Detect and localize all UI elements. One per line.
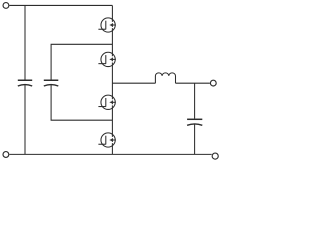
- wire output-cap branch upper: [194, 83, 196, 118]
- mosfet M3: [98, 95, 115, 109]
- wire switch node to inductor: [112, 82, 155, 84]
- inductor L1: [155, 73, 175, 83]
- mosfet M1: [98, 18, 115, 32]
- wire top rail: [9, 4, 112, 6]
- wire flying-cap bottom (cap to node B): [51, 85, 112, 120]
- wire input-cap branch upper: [24, 5, 26, 79]
- wire output-cap branch lower: [194, 124, 196, 154]
- terminal Vin- (bottom-left): [3, 152, 9, 158]
- terminal Vin+ (top-left): [3, 3, 9, 9]
- wire flying-cap top (node A to cap): [51, 44, 112, 79]
- capacitor C_in: [18, 80, 32, 86]
- wire drain-source stack (x=112.4, with channel gaps): [111, 5, 113, 154]
- mosfet M4: [98, 133, 115, 147]
- wire inductor to output terminal: [176, 82, 210, 84]
- mosfet M2: [98, 52, 115, 66]
- capacitor C_out: [187, 119, 202, 125]
- terminal Vout- (bottom-right): [212, 153, 218, 159]
- wire input-cap branch lower: [24, 85, 26, 154]
- capacitor C_fly: [44, 80, 59, 86]
- wire bottom rail: [9, 153, 211, 155]
- terminal Vout+ (right-mid): [210, 80, 216, 86]
